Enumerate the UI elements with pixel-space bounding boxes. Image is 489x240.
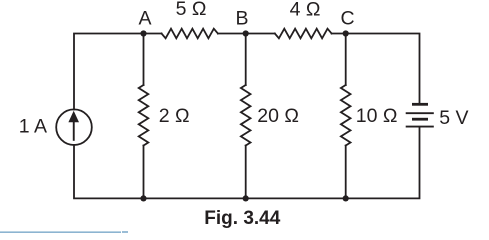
wire branch A vertical bottom: [143, 146, 145, 199]
svg-text:1 A: 1 A: [19, 116, 47, 138]
wire top-middle: R 5ohm to node B to R 4ohm: [218, 33, 275, 35]
svg-text:5 Ω: 5 Ω: [176, 0, 207, 20]
svg-text:2 Ω: 2 Ω: [159, 105, 190, 127]
svg-text:4 Ω: 4 Ω: [290, 0, 321, 20]
svg-text:10 Ω: 10 Ω: [356, 105, 398, 127]
resistor 2 ohm (node A branch): [139, 85, 149, 146]
wire top-left: current source top to node A to R 5ohm: [74, 34, 162, 110]
current source arrow: [68, 111, 79, 141]
wire branch A vertical top: [143, 34, 145, 86]
battery short plate (top): [412, 103, 428, 106]
battery long plate (bottom): [406, 126, 434, 128]
resistor 5 ohm (A to B): [162, 29, 218, 39]
decorative blue bar bottom-left: [0, 231, 121, 235]
wire top-right: R 4ohm through node C to battery top: [332, 34, 420, 104]
resistor 20 ohm (node B branch): [241, 85, 251, 146]
resistor 10 ohm (node C branch): [341, 85, 351, 146]
current source I1 circle: [56, 109, 92, 145]
svg-text:5 V: 5 V: [439, 107, 468, 129]
wire bottom: battery bottom along bottom rail to current source bottom: [74, 128, 420, 199]
battery B1 plates: [406, 104, 434, 126]
node A junction dot (top): [140, 30, 146, 36]
svg-text:Fig. 3.44: Fig. 3.44: [204, 208, 280, 229]
svg-text:20 Ω: 20 Ω: [257, 105, 299, 127]
svg-text:A: A: [138, 8, 151, 30]
wire branch C vertical bottom: [345, 146, 347, 199]
junction dot bottom of branch C: [343, 195, 349, 201]
battery long plate: [406, 112, 434, 114]
wire branch C vertical top: [345, 34, 347, 86]
node C junction dot (top): [343, 30, 349, 36]
battery short plate (lower): [412, 118, 428, 121]
resistor 4 ohm (B to C): [275, 29, 332, 39]
wire branch B vertical bottom: [245, 146, 247, 199]
node B junction dot (top): [243, 30, 249, 36]
svg-text:B: B: [235, 8, 248, 30]
svg-text:C: C: [340, 8, 354, 30]
junction dot bottom of branch B: [243, 195, 249, 201]
junction dot bottom of branch A: [140, 195, 146, 201]
wire branch B vertical top: [245, 34, 247, 86]
